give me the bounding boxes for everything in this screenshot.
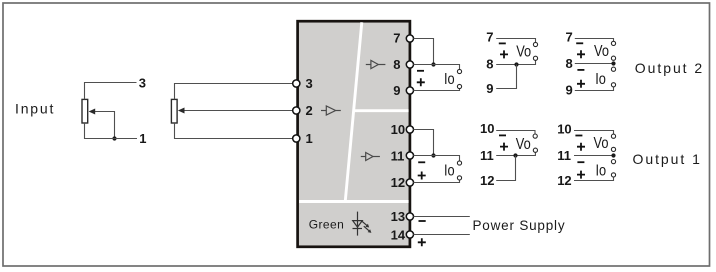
svg-text:11: 11	[480, 148, 494, 163]
terminal 13	[406, 213, 413, 220]
svg-text:1: 1	[139, 131, 146, 146]
wire 8-9 jumper	[496, 65, 516, 89]
svg-text:12: 12	[557, 173, 571, 188]
wire P2 wiper from terminal 2	[178, 108, 293, 114]
svg-text:Vo: Vo	[594, 135, 609, 153]
svg-text:7: 7	[486, 30, 493, 45]
svg-text:Vo: Vo	[594, 43, 609, 61]
socket Vo minus	[533, 42, 537, 46]
wire node 11 tap (combined)	[574, 155, 614, 157]
terminal 10	[406, 126, 413, 133]
polarity plus (terminal 9)	[417, 78, 425, 86]
svg-text:8: 8	[486, 57, 493, 72]
polarity minus node 7 (combined)	[576, 42, 583, 44]
svg-text:Vo: Vo	[516, 43, 531, 61]
svg-text:3: 3	[306, 76, 313, 91]
wire P1 wiper	[89, 109, 115, 139]
socket node 11 lower (combined)	[611, 160, 615, 164]
socket node 8 upper (combined)	[611, 56, 615, 60]
svg-text:2: 2	[306, 103, 313, 118]
svg-text:10: 10	[557, 121, 571, 136]
polarity plus (node 8)	[500, 50, 508, 58]
isolator module body	[298, 21, 410, 247]
socket node 8 lower (combined)	[611, 67, 615, 71]
socket Io plus (output 1 combined)	[611, 173, 615, 177]
socket Io plus	[457, 84, 461, 88]
svg-text:12: 12	[391, 175, 405, 190]
polarity minus node 10	[499, 134, 506, 136]
op-amp U2 (output 2 amplifier)	[366, 60, 386, 68]
svg-text:Io: Io	[596, 162, 607, 180]
socket Io plus (output 1)	[457, 176, 461, 180]
wire node 9 to Io socket (combined)	[575, 87, 614, 91]
wire terminal 7 jumper	[413, 39, 433, 65]
wire 11-12 jumper	[496, 156, 515, 181]
svg-text:Io: Io	[444, 71, 455, 89]
wire terminal 12 to Io socket	[413, 180, 459, 183]
terminal 1	[293, 135, 300, 142]
junction node 8 tap	[611, 61, 615, 65]
svg-text:Io: Io	[444, 162, 455, 180]
polarity plus (terminal 12)	[418, 172, 426, 180]
svg-text:Green: Green	[309, 218, 344, 232]
svg-text:10: 10	[391, 122, 405, 137]
socket Io plus (combined)	[611, 83, 615, 87]
wire terminal 10 jumper	[413, 130, 433, 156]
op-amp U1 (input amplifier)	[321, 106, 341, 115]
polarity minus node 11 (combined)	[577, 161, 584, 163]
wire terminal 8 to Io socket	[413, 65, 459, 70]
terminal 9	[406, 87, 413, 94]
polarity plus node 12 (combined)	[577, 171, 585, 179]
socket Vo minus (output 1)	[533, 134, 537, 138]
junction 7-8 jumper	[431, 62, 435, 66]
polarity plus node 11 (combined)	[577, 143, 585, 151]
polarity minus node 8 (combined)	[577, 69, 584, 71]
polarity plus node 9 (combined)	[577, 80, 585, 88]
polarity plus node 8 (combined)	[577, 50, 585, 58]
svg-text:Io: Io	[595, 71, 606, 89]
socket Vo plus (output 1)	[533, 148, 537, 152]
svg-text:7: 7	[566, 30, 573, 45]
socket Vo minus (combined)	[611, 41, 615, 45]
divider above LED section	[299, 200, 409, 203]
svg-text:7: 7	[393, 31, 400, 46]
terminal 8	[406, 61, 413, 68]
polarity minus (terminal 11)	[418, 161, 425, 163]
svg-text:8: 8	[566, 56, 573, 71]
socket Io minus (output 1)	[457, 161, 461, 165]
isolation barrier diagonal divider	[345, 22, 362, 201]
socket Io minus	[457, 69, 461, 73]
junction 10-11 jumper	[431, 153, 435, 157]
wire P2 bottom lead to terminal 1	[175, 123, 293, 139]
polarity minus node 10 (combined)	[575, 135, 582, 137]
terminal 12	[406, 179, 413, 186]
svg-text:12: 12	[480, 173, 494, 188]
LED light arrows heads	[365, 224, 369, 228]
svg-text:11: 11	[557, 148, 571, 163]
socket node 11 upper (combined)	[611, 147, 615, 151]
junction node 8 to 9 jumper	[514, 62, 518, 66]
wire node 10 to Vo socket	[496, 131, 535, 135]
terminal 14	[406, 231, 413, 238]
wire terminal 9 to Io socket	[413, 89, 459, 91]
polarity minus (terminal 13)	[419, 220, 426, 222]
polarity minus (terminal 8)	[417, 70, 424, 72]
wire terminal 13 power	[413, 216, 470, 218]
potentiometer P1 body	[82, 99, 88, 123]
svg-text:Output 1: Output 1	[633, 151, 702, 167]
svg-text:9: 9	[486, 81, 493, 96]
polarity minus (node 7)	[499, 42, 506, 44]
svg-text:9: 9	[393, 83, 400, 98]
wire P1 top lead to node 3	[85, 83, 137, 100]
LED D1	[353, 212, 370, 236]
terminal 2	[293, 107, 300, 114]
svg-text:8: 8	[393, 57, 400, 72]
svg-text:Vo: Vo	[516, 136, 531, 154]
svg-text:13: 13	[391, 209, 405, 224]
svg-text:Output 2: Output 2	[635, 60, 704, 76]
svg-text:14: 14	[391, 228, 406, 243]
terminal 3	[293, 80, 300, 87]
socket Vo plus	[533, 56, 537, 60]
potentiometer P2 body	[171, 99, 177, 123]
svg-text:3: 3	[139, 75, 146, 90]
wire P2 top lead to terminal 3	[175, 84, 293, 100]
svg-text:9: 9	[566, 83, 573, 98]
junction node 11 to 12 jumper	[513, 153, 517, 157]
wire node 7 to Vo socket	[496, 39, 535, 43]
wire node 12 to Io socket (combined)	[574, 177, 614, 180]
wire P1 bottom lead to node 1	[85, 123, 138, 139]
svg-text:Power Supply: Power Supply	[473, 218, 566, 233]
svg-text:1: 1	[306, 131, 313, 146]
svg-text:10: 10	[480, 121, 494, 136]
svg-text:11: 11	[391, 149, 405, 164]
divider between output channels	[354, 109, 409, 112]
polarity plus node 11	[500, 143, 508, 151]
wire terminal 11 to Io socket	[413, 156, 459, 161]
wire terminal 14 power	[413, 234, 470, 236]
terminal 11	[406, 152, 413, 159]
wire node 11 to Vo socket	[496, 152, 535, 156]
wire node 7 to Vo socket (combined)	[575, 39, 614, 42]
terminal 7	[406, 35, 413, 42]
socket Vo minus (output 1 combined)	[611, 134, 615, 138]
op-amp U3 (output 1 amplifier)	[361, 153, 380, 161]
wire node 8 to Vo socket	[496, 61, 535, 65]
polarity plus (terminal 14)	[418, 238, 426, 246]
wire node 10 to Vo socket (combined)	[574, 131, 614, 135]
wire node 8 tap (combined)	[575, 63, 614, 65]
junction P1 wiper to bottom	[112, 136, 116, 140]
junction node 11 tap	[611, 153, 615, 157]
svg-text:Input: Input	[15, 101, 55, 117]
